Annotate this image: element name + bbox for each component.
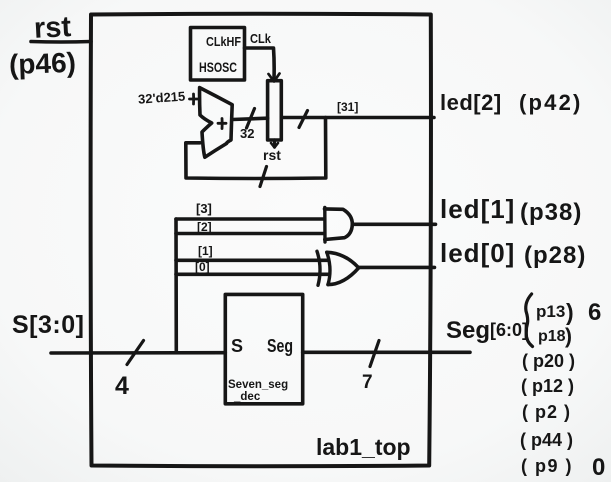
svg-text:( p20 ): ( p20 ) [522, 351, 575, 371]
svg-text:CLk: CLk [250, 32, 271, 46]
svg-text:led[2]: led[2] [440, 90, 502, 115]
svg-text:6: 6 [588, 299, 601, 326]
svg-text:p13: p13 [536, 302, 565, 321]
svg-text:(p38): (p38) [520, 199, 582, 226]
svg-text:lab1_top: lab1_top [316, 434, 411, 460]
svg-text:HSOSC: HSOSC [199, 60, 237, 75]
svg-text:32: 32 [240, 126, 254, 141]
svg-text:S: S [231, 336, 243, 356]
svg-text:[31]: [31] [337, 100, 358, 114]
svg-text:): ) [565, 325, 572, 348]
svg-text:S[3:0]: S[3:0] [12, 311, 84, 339]
svg-text:): ) [566, 299, 574, 325]
svg-text:4: 4 [115, 372, 129, 400]
svg-text:0: 0 [592, 454, 605, 481]
svg-text:(p28): (p28) [524, 242, 586, 269]
svg-text:led[0]: led[0] [440, 238, 515, 268]
svg-text:( p2 ): ( p2 ) [522, 402, 571, 422]
svg-text:_dec: _dec [233, 391, 261, 403]
svg-text:[1]: [1] [198, 244, 213, 258]
svg-text:CLkHF: CLkHF [206, 35, 241, 49]
svg-text:[0]: [0] [195, 260, 210, 274]
svg-text:[2]: [2] [197, 220, 212, 234]
svg-text:Seg[6:0]: Seg[6:0] [446, 317, 528, 344]
svg-text:led[1]: led[1] [440, 194, 515, 224]
svg-text:(p46): (p46) [8, 47, 76, 80]
svg-text:( p9 ): ( p9 ) [521, 456, 573, 476]
svg-text:( p44 ): ( p44 ) [520, 430, 573, 450]
svg-text:( p12 ): ( p12 ) [521, 376, 574, 396]
svg-text:7: 7 [362, 372, 373, 393]
svg-text:Seg: Seg [267, 336, 293, 356]
svg-text:p18: p18 [538, 328, 566, 345]
svg-text:[3]: [3] [196, 201, 212, 216]
svg-text:rst: rst [263, 147, 281, 163]
svg-text:(p42): (p42) [519, 90, 583, 115]
svg-text:rst: rst [33, 11, 72, 45]
svg-text:Seven_seg: Seven_seg [228, 379, 288, 391]
